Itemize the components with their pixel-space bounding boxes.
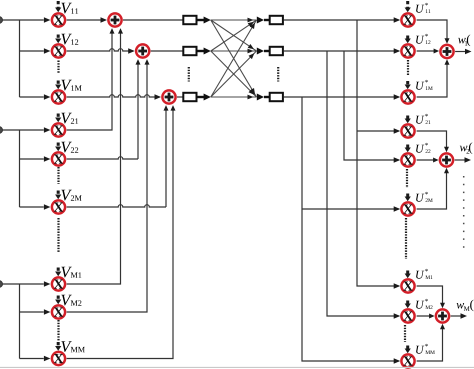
mesh wire 3-2 xyxy=(211,51,257,97)
ellipsis dots xyxy=(406,169,408,188)
coefficient arrow into UM2 xyxy=(405,301,411,309)
coefficient arrow into V22 xyxy=(55,143,61,152)
wire xyxy=(20,94,51,99)
adder SM xyxy=(162,90,175,103)
output wire xyxy=(455,157,471,162)
coefficient arrow into UMM xyxy=(405,346,411,354)
bus wire r1 xyxy=(357,20,400,289)
delay box D2 xyxy=(183,47,196,55)
wire xyxy=(2,127,50,132)
wire xyxy=(417,314,435,319)
junction arrow xyxy=(257,94,264,101)
delay box DM xyxy=(183,93,196,101)
coefficient arrow into U1M xyxy=(405,81,411,89)
wire xyxy=(67,94,161,99)
label wM(t) xyxy=(456,300,473,312)
label UMM xyxy=(416,344,435,354)
ellipsis dots xyxy=(57,218,59,252)
multiplier V2M xyxy=(52,200,65,213)
wire xyxy=(417,168,449,209)
ellipsis dots xyxy=(57,61,59,75)
wire xyxy=(264,19,270,21)
coefficient arrow into V1M xyxy=(55,81,61,90)
junction arrow xyxy=(204,94,211,101)
mesh wire 2-3 xyxy=(211,51,257,97)
multiplier UM1 xyxy=(401,279,414,292)
wire xyxy=(67,59,150,312)
wire xyxy=(417,286,445,308)
label VMM xyxy=(61,341,84,352)
delay box E1 xyxy=(270,16,283,24)
ellipsis dots xyxy=(57,320,59,341)
label w2(t) xyxy=(460,142,472,154)
wire xyxy=(417,324,445,361)
wire xyxy=(67,105,169,207)
ellipsis dots xyxy=(277,67,279,82)
wire xyxy=(417,49,440,54)
label UM1 xyxy=(416,269,432,279)
label w1(t) xyxy=(458,35,470,47)
multiplier V12 xyxy=(52,44,65,57)
mesh wire 1-2 xyxy=(211,20,257,51)
wire xyxy=(2,17,50,22)
wire xyxy=(417,59,450,97)
mesh wire 3-3 xyxy=(211,95,257,100)
coefficient arrow into V12 xyxy=(55,35,61,44)
wire xyxy=(123,19,183,21)
wire xyxy=(67,105,176,358)
coefficient arrow into V21 xyxy=(55,114,61,123)
label U11 xyxy=(416,3,430,13)
wire xyxy=(19,130,21,207)
junction arrow xyxy=(204,17,211,24)
wire xyxy=(417,20,450,44)
junction arrow xyxy=(257,48,264,55)
ellipsis dots xyxy=(407,60,409,75)
multiplier U21 xyxy=(401,124,414,137)
wire xyxy=(2,281,50,286)
label V2M xyxy=(61,190,81,201)
multiplier U1M xyxy=(401,90,414,103)
wire xyxy=(197,96,205,98)
junction arrow xyxy=(204,48,211,55)
delay box E2 xyxy=(270,47,283,55)
wire xyxy=(284,48,401,53)
delay box EM xyxy=(270,93,283,101)
multiplier VM2 xyxy=(52,305,65,318)
wire xyxy=(19,20,21,97)
delay box D1 xyxy=(183,16,196,24)
wire xyxy=(19,284,21,359)
wire xyxy=(264,50,270,52)
input node xM xyxy=(0,281,3,288)
coefficient arrow into U21 xyxy=(405,116,411,124)
wire xyxy=(20,204,51,209)
bus wire r1-branch xyxy=(357,128,400,133)
multiplier V1M xyxy=(52,90,65,103)
wire xyxy=(67,48,135,53)
ellipsis dots xyxy=(188,67,190,82)
label V12 xyxy=(61,34,78,45)
label U12 xyxy=(416,34,430,44)
mesh wire 2-2 xyxy=(211,49,257,54)
wire xyxy=(417,131,449,152)
multiplier VM1 xyxy=(52,277,65,290)
bus wire rM xyxy=(302,97,400,364)
mesh wire 1-1 xyxy=(211,18,257,23)
label U22 xyxy=(416,143,430,153)
wire xyxy=(284,17,401,22)
label UM2 xyxy=(416,299,432,309)
wire xyxy=(67,28,123,284)
bus wire rM-branch xyxy=(302,206,400,211)
multiplier U2M xyxy=(401,202,414,215)
edge artifact xyxy=(0,366,474,368)
mesh wire 2-1 xyxy=(211,20,257,51)
adder TM xyxy=(436,309,449,322)
wire xyxy=(151,50,184,52)
ellipsis dots xyxy=(57,167,59,184)
adder S2 xyxy=(136,44,149,57)
wire xyxy=(284,94,401,99)
coefficient arrow into VM1 xyxy=(55,268,61,277)
adder S1 xyxy=(108,13,121,26)
coefficient arrow into UM1 xyxy=(405,271,411,279)
coefficient arrow into U2M xyxy=(405,194,411,202)
multiplier V11 xyxy=(52,13,65,26)
coefficient arrow into VMM xyxy=(55,342,61,351)
wire xyxy=(67,17,107,22)
input node x1 xyxy=(0,17,3,24)
adder T1 xyxy=(440,45,453,58)
wire xyxy=(20,356,51,361)
label U2M xyxy=(416,192,433,202)
multiplier U22 xyxy=(401,153,414,166)
wire xyxy=(177,96,183,98)
wire xyxy=(67,28,115,130)
wire xyxy=(20,48,51,53)
output wire xyxy=(451,313,467,318)
wire xyxy=(417,158,439,163)
ellipsis dots xyxy=(405,218,407,259)
multiplier UM2 xyxy=(401,309,414,322)
coefficient arrow into U22 xyxy=(405,145,411,153)
coefficient arrow into V2M xyxy=(55,191,61,200)
label VM1 xyxy=(61,267,81,278)
label U1M xyxy=(416,80,433,90)
adder T2 xyxy=(440,153,453,166)
mesh wire 3-1 xyxy=(211,20,257,97)
multiplier U11 xyxy=(401,13,414,26)
label V1M xyxy=(61,80,81,91)
coefficient arrow into V11 xyxy=(55,1,61,12)
multiplier V22 xyxy=(52,152,65,165)
wire xyxy=(20,156,51,161)
ellipsis dots xyxy=(404,325,406,342)
wire xyxy=(264,96,270,98)
output wire xyxy=(455,49,471,54)
wire xyxy=(67,59,141,159)
bus wire r2b xyxy=(327,51,400,319)
wire xyxy=(197,50,205,52)
label V21 xyxy=(61,113,78,124)
mesh wire 1-3 xyxy=(211,20,257,97)
multiplier VMM xyxy=(52,352,65,365)
coefficient arrow into VM2 xyxy=(55,296,61,305)
coefficient arrow into U12 xyxy=(405,36,411,44)
label U21 xyxy=(416,114,430,124)
wire xyxy=(20,309,51,314)
label VM2 xyxy=(61,295,81,306)
input node x2 xyxy=(0,127,3,134)
multiplier V21 xyxy=(52,123,65,136)
wire xyxy=(197,19,205,21)
junction arrow xyxy=(257,17,264,24)
label V22 xyxy=(61,142,78,153)
bus wire r2a xyxy=(344,51,400,163)
label V11 xyxy=(61,3,78,14)
multiplier UMM xyxy=(401,354,414,367)
multiplier U12 xyxy=(401,44,414,57)
coefficient arrow into U11 xyxy=(405,1,411,12)
ellipsis dots xyxy=(463,176,465,251)
